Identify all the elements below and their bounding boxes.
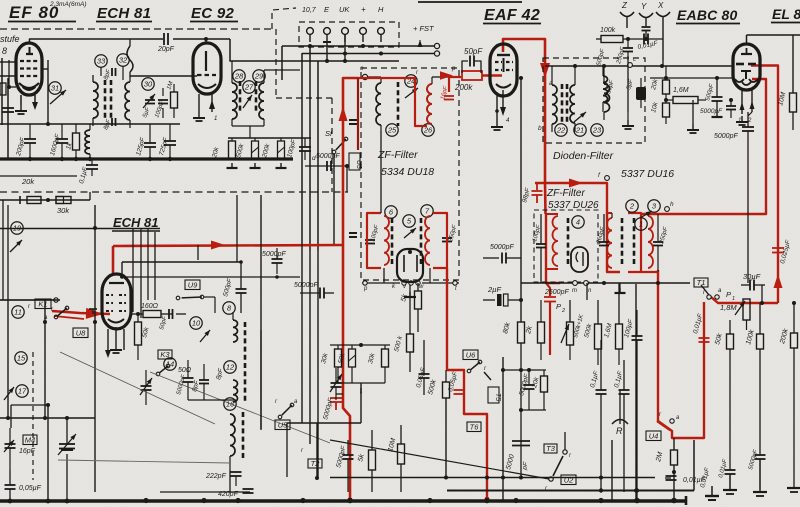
red link 16pF (449, 77, 461, 92)
pin arrow EAF42 (495, 107, 510, 124)
svg-text:X: X (657, 1, 664, 10)
coil T-B secondary (259, 70, 264, 126)
tube ECH81 cathode (108, 319, 124, 323)
capacitor tap lower (349, 233, 357, 237)
svg-text:U9: U9 (188, 280, 198, 289)
resistor 160 (131, 303, 172, 318)
wire 3bundle under ech81 (133, 228, 148, 318)
potentiometer P1 (720, 290, 750, 330)
wire misc mid (229, 470, 231, 492)
filter box ZF1 (361, 68, 459, 280)
label U6 (463, 350, 478, 360)
terminal o (360, 65, 368, 80)
diode tube DU18 (397, 249, 423, 282)
resistor 1,6M (666, 87, 706, 104)
resistor 5k mid (357, 430, 375, 492)
label M4 (19, 435, 37, 455)
core dioden (562, 84, 567, 124)
coil T-A secondary (125, 78, 130, 128)
svg-text:29: 29 (254, 72, 264, 81)
red af to P1 (711, 297, 778, 303)
node 30 (142, 78, 154, 90)
red link du16 (641, 271, 658, 273)
svg-text:5000pF: 5000pF (262, 251, 286, 258)
svg-text:T5: T5 (494, 393, 501, 401)
wire tuning left b (0, 300, 95, 501)
svg-text:27: 27 (244, 83, 254, 92)
red af line h (641, 79, 766, 214)
capacitor af2 (748, 449, 765, 490)
capacitor 0,1uF bus (78, 159, 98, 185)
svg-text:+ FST: + FST (413, 24, 435, 33)
resistor 50k m (337, 345, 355, 383)
capacitor 8pF bot (103, 118, 115, 131)
svg-text:31: 31 (51, 84, 59, 93)
tube EF80 pins (21, 95, 38, 110)
svg-text:EABC 80: EABC 80 (677, 7, 738, 23)
core T-A (105, 80, 111, 120)
svg-text:U6: U6 (466, 350, 476, 359)
trimmer main gang (58, 418, 76, 501)
diode 5000pF note (316, 153, 340, 160)
resistor 20k b (531, 370, 548, 410)
wire u5 row (287, 422, 361, 424)
ground cluster c (276, 163, 287, 168)
wire x261 long (260, 195, 262, 429)
svg-text:5337 DU16: 5337 DU16 (621, 168, 674, 180)
label U5 (275, 420, 290, 430)
tube EABC80 heading (676, 7, 740, 24)
wire y410 (519, 408, 546, 412)
node 25 (386, 124, 398, 136)
tube ECH81 mid heading (112, 215, 160, 231)
text 5000pF eabc (700, 98, 736, 118)
ground DU18 (404, 285, 416, 297)
heading underline Tastensatz (418, 1, 522, 3)
terminal f (598, 172, 609, 180)
terminal label H (378, 5, 384, 14)
node 16 (224, 398, 236, 410)
tube EAF42 heading (483, 7, 541, 24)
svg-text:U2: U2 (564, 475, 574, 484)
wire to 20pF (129, 39, 131, 46)
red trunk down (343, 245, 353, 503)
wire T-B top (264, 69, 300, 71)
tube EABC80 envelope (733, 44, 760, 90)
svg-text:20pF: 20pF (157, 46, 175, 53)
terminal c (628, 57, 636, 67)
svg-text:o: o (360, 65, 364, 72)
switch U5 (275, 399, 298, 419)
ground EC92 (193, 112, 205, 121)
trimmer osc b (330, 368, 342, 400)
wire R (619, 390, 621, 424)
ground du16 (615, 283, 626, 293)
svg-text:25: 25 (387, 126, 397, 135)
node 5 (403, 215, 416, 238)
red capacitor 0,01uF af (699, 338, 710, 342)
label R (612, 420, 628, 437)
svg-text:21: 21 (575, 126, 584, 135)
svg-text:15: 15 (17, 354, 26, 363)
text 2500pF (544, 289, 569, 296)
core osc (244, 322, 247, 402)
resistor 100k top (596, 27, 663, 43)
text ZF-Filter 2 (546, 188, 585, 199)
red switch U4 (657, 421, 670, 430)
tube EF80 grids (20, 47, 38, 76)
svg-text:+: + (361, 5, 366, 14)
resistor 30k h (56, 197, 71, 216)
label U3 (349, 153, 362, 170)
core DU16 L (621, 218, 624, 266)
svg-text:1,6M: 1,6M (673, 87, 689, 94)
label T5 (488, 387, 501, 403)
wire tuning left c (93, 205, 97, 492)
wire u5 drop (287, 423, 317, 477)
label T6 (467, 422, 481, 432)
capacitor 5000pF mid2 (483, 244, 521, 264)
ground eabc a (622, 120, 634, 129)
wire x753 ext (747, 214, 749, 283)
label K3 (158, 350, 172, 359)
capacitor 5000pF k (176, 360, 193, 400)
text 5337 DU16 (621, 168, 674, 180)
potentiometer P2 (556, 300, 585, 360)
node 1 (635, 218, 647, 230)
wire T-B bottom (232, 126, 264, 138)
node 19 (10, 222, 23, 252)
wire y232 left (0, 228, 160, 230)
svg-text:50Ω: 50Ω (178, 367, 192, 374)
tube EAF42 cathode (496, 84, 511, 88)
resistor 500k b (583, 300, 601, 365)
terminal row circles (572, 281, 592, 294)
node 11 (12, 304, 31, 318)
red capacitor 0,025uF (772, 248, 784, 253)
wire eabc g (650, 76, 733, 80)
wire EABC80 top (747, 35, 800, 44)
wire drop x310b (309, 46, 311, 250)
svg-text:28: 28 (234, 72, 244, 81)
tube EC92 anode wire (205, 39, 207, 43)
svg-text:ZF-Filter: ZF-Filter (546, 188, 585, 199)
red zf2 horizontal (535, 179, 620, 273)
wire bottom secondary (447, 440, 694, 493)
wire mid drop (346, 166, 348, 192)
wire tuning left a (8, 300, 11, 428)
svg-text:2,3mA(6mA): 2,3mA(6mA) (49, 1, 86, 8)
coil osc c (230, 414, 235, 470)
core T-B (240, 81, 256, 113)
label U9 (185, 280, 200, 290)
red capacitor 2500pF (544, 283, 556, 355)
svg-text:222pF: 222pF (205, 473, 227, 480)
svg-text:0,05µF: 0,05µF (19, 485, 42, 492)
terminal E foot (323, 42, 331, 61)
svg-text:1,8M: 1,8M (720, 303, 737, 312)
svg-text:5334 DU18: 5334 DU18 (381, 166, 434, 178)
wire row top (0, 123, 180, 125)
resistor row left (0, 198, 90, 202)
svg-text:EL 8: EL 8 (772, 6, 800, 22)
svg-text:EC 92: EC 92 (191, 5, 235, 22)
red coil ZF1 lower L loop (367, 213, 389, 268)
capacitor 500pF eabc (705, 76, 722, 117)
red trunk vertical (339, 78, 359, 245)
red path into ECH81 (52, 308, 110, 319)
wire drop x282 (281, 46, 283, 80)
svg-text:10,7: 10,7 (302, 7, 317, 14)
capacitor 0,1uF R2 (613, 360, 629, 492)
text 500pF u9 (222, 262, 246, 313)
svg-text:c: c (633, 57, 636, 63)
resistor 30k m2 (367, 345, 388, 383)
capacitor tap upper (349, 120, 357, 124)
core ZF2 (567, 218, 570, 266)
capacitor 5000pF mid (305, 161, 349, 171)
wire u2 run (330, 440, 549, 479)
svg-text:5000pF: 5000pF (714, 133, 738, 140)
resistor 20k h (20, 196, 41, 204)
tube EF80 heading (8, 3, 76, 22)
wire eabc misc (628, 56, 693, 124)
capacitor 5000pF t (294, 282, 334, 299)
capacitor af1 (718, 458, 735, 490)
node 32 (117, 54, 129, 80)
terminal label E (324, 5, 330, 14)
ground bus right d (787, 460, 800, 492)
tube EF80 anode wire (30, 39, 60, 124)
resistor 20k eabc (650, 66, 670, 100)
red resistor 200k (454, 71, 482, 92)
coil ZF1 upper R (427, 84, 432, 124)
text 10M mid (387, 425, 404, 492)
capacitor 50pF k (159, 309, 186, 331)
svg-text:32: 32 (119, 56, 128, 65)
node 6 (385, 206, 397, 218)
text 20k (21, 177, 35, 186)
svg-text:12: 12 (226, 363, 235, 372)
wire x261 (260, 330, 262, 430)
svg-text:5000pF: 5000pF (490, 244, 514, 251)
core ZF1 upper (397, 82, 400, 126)
trimmer osc a (140, 370, 152, 405)
svg-text:p: p (363, 286, 368, 292)
wire cluster top (228, 137, 311, 139)
wire x198 (197, 245, 199, 260)
svg-text:U8: U8 (76, 328, 86, 337)
coil dioden R (570, 66, 575, 132)
node 8 (223, 302, 235, 314)
text Dioden-Filter (553, 150, 614, 162)
svg-text:11: 11 (14, 308, 22, 317)
svg-text:T2: T2 (311, 459, 321, 468)
antenna Y (639, 2, 653, 39)
filter box ZF2 (534, 210, 598, 282)
terminal posts (307, 28, 385, 42)
wire left col a (3, 200, 8, 300)
red capacitor det (454, 390, 465, 394)
wire res top (330, 343, 390, 347)
terminal strip box (299, 22, 399, 47)
coil eabc left (603, 66, 608, 112)
coil osc a (233, 312, 238, 342)
resistor 2k (525, 300, 545, 360)
text 0,05uF det (447, 370, 459, 392)
svg-text:200k: 200k (454, 83, 473, 92)
tube EABC80 pins (738, 90, 755, 124)
label U4 (646, 431, 661, 441)
tube EC92 grid (130, 51, 216, 76)
resistor 20k v (211, 138, 236, 159)
wire o to coil (368, 77, 381, 83)
tube ECH81 envelope (102, 274, 131, 329)
wire tuning top (0, 299, 56, 301)
capacitor left edge (0, 83, 14, 112)
capacitor 5000uF big (505, 441, 530, 471)
node 28 (233, 70, 245, 82)
node 21 (574, 112, 586, 136)
svg-text:100k: 100k (600, 27, 616, 34)
switch K1 (44, 306, 69, 321)
svg-text:5000pF: 5000pF (700, 108, 723, 115)
red link to EAF42 (440, 71, 502, 80)
terminal d (312, 155, 334, 164)
coil osc b (233, 380, 238, 402)
text 0,05uF det2 (415, 366, 427, 388)
wire dioden top (545, 64, 733, 68)
dashed shield border rise (272, 8, 332, 192)
svg-text:b: b (538, 125, 542, 132)
wire x663 ext (662, 60, 664, 66)
svg-text:Y: Y (641, 2, 647, 11)
tube EC92 envelope (193, 43, 221, 94)
svg-text:50pF: 50pF (464, 47, 483, 56)
resistor 50k k (135, 312, 151, 360)
svg-text:30: 30 (144, 80, 153, 89)
text 5000pF el (714, 112, 754, 214)
wire ech81 top (120, 260, 300, 279)
current note 2,3mA(6mA) (49, 1, 86, 8)
tube EABC80 grid (736, 48, 756, 79)
svg-text:22: 22 (556, 126, 566, 135)
resistor 500k det (427, 370, 449, 478)
svg-text:M4: M4 (25, 435, 35, 444)
terminal label UK (339, 5, 350, 14)
svg-text:P: P (556, 302, 561, 311)
switch 14 (156, 364, 170, 376)
node 27 (243, 81, 255, 93)
terminal letters a b (416, 66, 553, 132)
dashed shield border top-left (0, 28, 272, 30)
tube EF80 cathode (19, 83, 39, 90)
svg-text:d: d (312, 155, 316, 162)
svg-text:17: 17 (18, 387, 27, 396)
node 33 (95, 55, 107, 76)
wire y300 left (0, 298, 60, 302)
core osc c (242, 412, 245, 458)
node 23 (591, 124, 603, 136)
capacitor 2uF (483, 285, 523, 306)
text Q01uF br (699, 466, 711, 488)
capacitor 5000pF u (262, 248, 286, 274)
svg-text:H: H (378, 5, 384, 14)
resistor 100k af (745, 303, 763, 455)
text 0,025uF (779, 239, 792, 265)
tube EAF42 grids (495, 55, 513, 72)
svg-text:h: h (670, 201, 674, 208)
resistor 50k af (714, 320, 733, 470)
core DU16 R (633, 218, 636, 266)
ground cluster a (227, 163, 238, 168)
coil choke (85, 124, 90, 159)
tube EAF42 envelope (490, 44, 517, 96)
dial cord (58, 352, 330, 463)
wire drop x318 (317, 61, 319, 250)
svg-text:Sf: Sf (325, 129, 333, 138)
wire zf1 inner (381, 131, 430, 283)
label U2 (561, 475, 576, 485)
capacitor 100uF b (623, 310, 642, 500)
svg-text:T6: T6 (470, 422, 480, 431)
resistor 10k eabc (650, 98, 669, 124)
capacitor 5uF electrolytic (626, 78, 646, 108)
svg-text:T3: T3 (546, 444, 556, 453)
red capacitor 98pF (521, 183, 542, 204)
trimmer cap 5uF (142, 94, 155, 119)
wire bus y60 stub (325, 34, 347, 63)
tube ECH81 pins (105, 327, 124, 358)
resistor 5k eaf (400, 283, 421, 332)
ground eabc b (687, 124, 699, 133)
capacitor 5000pF mid3 (335, 440, 353, 492)
text stufe 8 (0, 34, 20, 56)
node 24 (405, 75, 418, 98)
capacitor mid det (419, 340, 430, 395)
capacitor 20pF (157, 33, 175, 53)
svg-text:4: 4 (576, 218, 580, 227)
tube ECH81 anode (109, 282, 124, 284)
red path IF line (113, 241, 343, 275)
ground ech81 (110, 344, 122, 353)
red stub dashed core (357, 78, 359, 150)
wire x503 (502, 357, 504, 500)
coil dioden L (552, 66, 557, 132)
tube EAF42 pins (497, 76, 523, 322)
node 2 (626, 200, 638, 212)
tube EC92 heading (190, 5, 238, 22)
switch T1 (701, 285, 722, 299)
wire sf drop (333, 154, 335, 244)
capacitor 260pF du16 (596, 214, 609, 246)
red coil ZF1 lower R loop (425, 213, 447, 268)
capacitor 0,01uF 2m (665, 476, 706, 484)
capacitor 250pF du16 (653, 214, 669, 272)
svg-text:20k: 20k (21, 177, 35, 186)
capacitor 100pF v (286, 138, 311, 160)
label T2 (301, 448, 322, 468)
wire bundle mid verticals (302, 244, 318, 477)
resistor 1,6M b (603, 283, 622, 365)
svg-text:ZF-Filter: ZF-Filter (377, 149, 418, 161)
ground EABC80 (736, 116, 748, 125)
resistor 2M (655, 438, 678, 500)
terminal label 10,7 (302, 7, 317, 14)
tube ECH81 grids (106, 295, 126, 311)
coil dioden aux (604, 66, 610, 120)
svg-text:160Ω: 160Ω (141, 303, 159, 310)
